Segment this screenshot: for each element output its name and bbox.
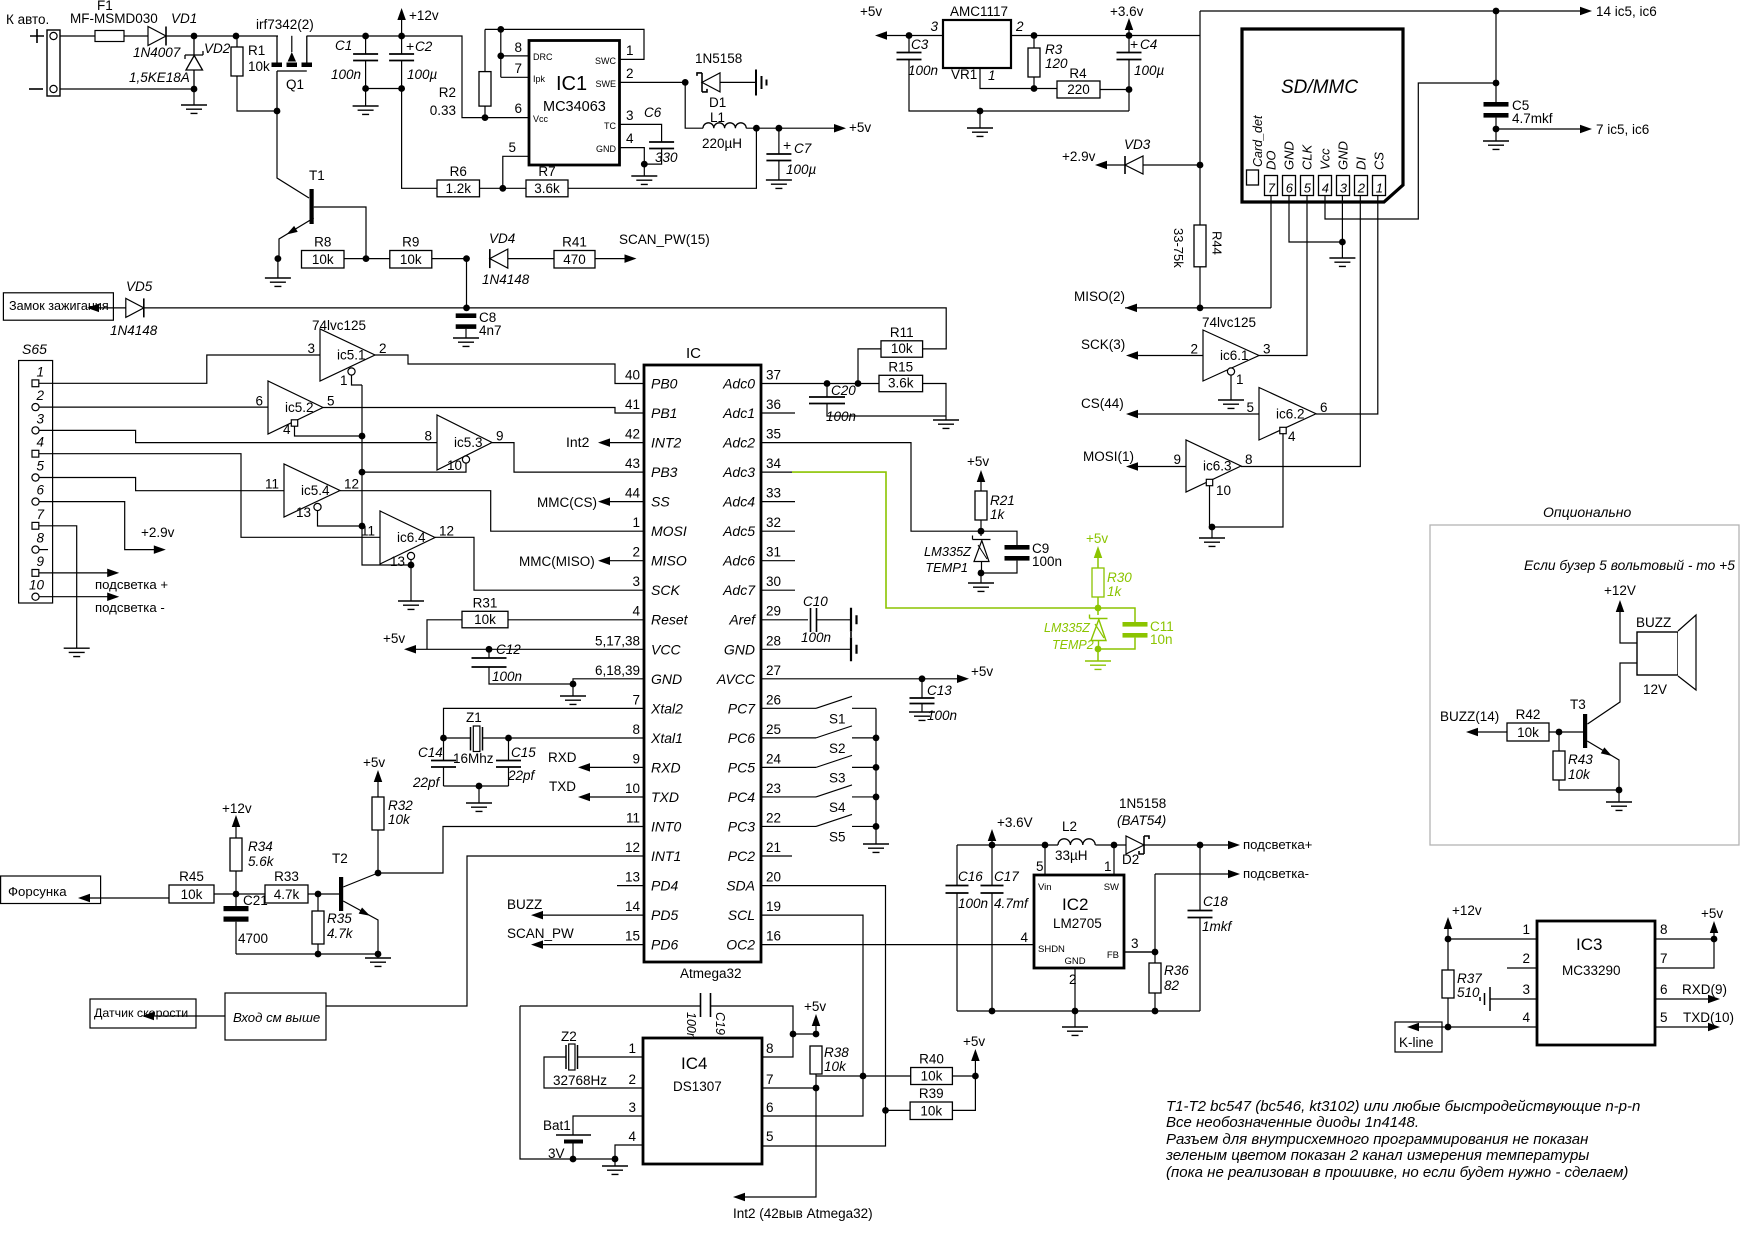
- wire R30 bottom green: [1097, 597, 1099, 608]
- svg-text:10k: 10k: [921, 1069, 943, 1084]
- svg-text:OC2: OC2: [726, 937, 755, 953]
- junction R8 R9 collector: [363, 255, 370, 262]
- wire OC2 to IC2 SHDN: [761, 944, 1034, 946]
- junction ground rail: [977, 108, 984, 115]
- inductor L2 33uH: [1058, 839, 1095, 845]
- IC U2 LM2705: [1034, 875, 1124, 968]
- svg-text:SWC: SWC: [595, 56, 616, 66]
- svg-text:37: 37: [766, 368, 781, 383]
- resistor R31 10k: [462, 595, 508, 628]
- wire R34 bottom: [235, 871, 237, 894]
- wire battery bottom: [572, 1144, 574, 1160]
- svg-text:1: 1: [1376, 181, 1383, 196]
- svg-text:Разъем для внутрисхемного прог: Разъем для внутрисхемного программирован…: [1166, 1131, 1588, 1148]
- wire Aref to C10: [761, 619, 808, 621]
- arrow +2.9v net: [154, 545, 166, 554]
- wire FB pin3: [1124, 951, 1155, 953]
- wire ignition to VD5: [99, 307, 126, 309]
- svg-text:2: 2: [1522, 951, 1530, 966]
- resistor R2 0.33: [479, 72, 491, 107]
- box vhod sm vyshe: [225, 993, 326, 1040]
- svg-text:Adc6: Adc6: [722, 553, 755, 569]
- svg-text:3.6k: 3.6k: [888, 376, 914, 391]
- junction SDA R39: [882, 1107, 889, 1114]
- svg-text:Int2 (42выв Atmega32): Int2 (42выв Atmega32): [733, 1206, 873, 1221]
- svg-text:3: 3: [36, 411, 44, 426]
- svg-text:4.7mkf: 4.7mkf: [1512, 111, 1553, 126]
- buffer ic6.2: [1259, 388, 1316, 441]
- svg-text:MMC(CS): MMC(CS): [537, 495, 597, 510]
- svg-text:S5: S5: [829, 829, 846, 844]
- wire left col to battery rail: [520, 1006, 615, 1159]
- svg-text:LM335Z: LM335Z: [1044, 621, 1090, 635]
- resistor R45 10k: [169, 869, 214, 903]
- resistor R1 10k: [231, 47, 243, 76]
- svg-text:PC5: PC5: [728, 759, 755, 775]
- svg-text:VD1: VD1: [171, 11, 197, 26]
- svg-text:MF-MSMD030: MF-MSMD030: [70, 11, 158, 26]
- ground for buffer enables: [398, 601, 424, 609]
- svg-text:10k: 10k: [920, 1104, 942, 1119]
- svg-text:SCAN_PW(15): SCAN_PW(15): [619, 232, 710, 247]
- wire ic5.1 out to PB0: [375, 355, 644, 384]
- fuse F1 MF-MSMD030: [95, 31, 124, 42]
- wire R42 left: [1478, 731, 1507, 733]
- wire Adc7 stub: [761, 589, 795, 591]
- svg-text:R31: R31: [473, 595, 498, 610]
- buffer ic6.3: [1186, 440, 1241, 492]
- wire ic5.2 enable: [295, 426, 363, 436]
- wire temp1 ground stem: [980, 573, 982, 583]
- wire IC2 bottom rail: [957, 1010, 1200, 1012]
- wire pins 7 8 column: [501, 29, 529, 77]
- wire C14 bottom: [443, 768, 445, 787]
- svg-text:R36: R36: [1164, 963, 1189, 978]
- arrow +5v AVCC: [957, 675, 969, 684]
- svg-text:Xtal2: Xtal2: [650, 700, 683, 716]
- svg-text:10k: 10k: [181, 887, 203, 902]
- svg-text:9: 9: [496, 429, 504, 444]
- svg-text:13: 13: [296, 505, 311, 520]
- arrow Int2 to pin42: [733, 1193, 745, 1202]
- svg-text:6: 6: [1320, 400, 1328, 415]
- svg-text:S2: S2: [829, 741, 846, 756]
- wire SDA to IC4 pin5: [761, 886, 886, 1146]
- wire crystal left: [444, 737, 471, 739]
- wire LM335 top stem: [980, 531, 982, 536]
- svg-text:43: 43: [625, 456, 640, 471]
- svg-text:MISO: MISO: [651, 553, 687, 569]
- svg-text:2: 2: [632, 545, 640, 560]
- svg-text:2: 2: [35, 388, 44, 403]
- wire SD pin5 CLK col: [1259, 196, 1307, 356]
- svg-text:3V: 3V: [548, 1146, 565, 1161]
- wire emitter ground stem: [277, 259, 279, 278]
- analog ground at Aref: [851, 608, 857, 632]
- svg-text:+: +: [783, 137, 791, 153]
- svg-text:C15: C15: [511, 745, 536, 760]
- wire enable common column: [362, 385, 411, 565]
- junction R36 bottom: [1152, 1008, 1159, 1015]
- svg-text:20: 20: [766, 870, 781, 885]
- arrow TXD(10): [1708, 1023, 1720, 1032]
- svg-text:7: 7: [1660, 951, 1668, 966]
- wire crystal ground stem: [478, 786, 480, 803]
- junction green node: [1095, 605, 1102, 612]
- svg-text:ic5.3: ic5.3: [454, 435, 483, 450]
- svg-text:1: 1: [988, 68, 996, 83]
- svg-text:3: 3: [1522, 982, 1530, 997]
- wire VD1 to node A: [166, 35, 278, 37]
- resistor R42 10k: [1507, 707, 1549, 741]
- svg-text:ic5.2: ic5.2: [285, 400, 314, 415]
- wire C7 to ground: [778, 161, 780, 180]
- wire Vin pin5: [1044, 845, 1046, 875]
- svg-text:Все необозначенные диоды 1n414: Все необозначенные диоды 1n4148.: [1166, 1114, 1419, 1131]
- svg-text:11: 11: [265, 477, 279, 492]
- ground rotated at D1: [756, 70, 767, 96]
- wire C5 to 7 ic5 ic6: [1496, 128, 1580, 130]
- wire S65 pin7 to ground: [39, 526, 77, 648]
- svg-text:1: 1: [628, 1041, 636, 1056]
- svg-text:10k: 10k: [388, 812, 411, 827]
- svg-text:1N4007: 1N4007: [133, 45, 181, 60]
- resistor R35 4.7k: [312, 911, 324, 944]
- svg-text:1,5KE18A: 1,5KE18A: [129, 70, 190, 85]
- capacitor C8 4n7: [456, 313, 477, 318]
- svg-text:R38: R38: [824, 1045, 849, 1060]
- svg-text:R11: R11: [890, 325, 914, 340]
- wire ic6.4 enable: [410, 560, 412, 566]
- svg-text:Q1: Q1: [286, 77, 304, 92]
- svg-text:Reset: Reset: [651, 612, 689, 628]
- wire pin3 to battery: [573, 1116, 643, 1135]
- wire IC1 pin 5 to divider: [503, 156, 529, 188]
- wire L1 out: [746, 127, 834, 129]
- svg-text:5.6k: 5.6k: [248, 854, 275, 869]
- junction IC4 ground: [612, 1156, 619, 1163]
- svg-text:IC3: IC3: [1576, 935, 1602, 954]
- svg-text:S4: S4: [829, 800, 846, 815]
- svg-text:C10: C10: [803, 594, 828, 609]
- wire podsvetka minus: [1155, 873, 1229, 875]
- svg-text:100n: 100n: [331, 67, 361, 82]
- wire C8 to ground: [465, 329, 467, 338]
- wire R21 top stem: [980, 482, 982, 491]
- arrow CS(44): [1126, 410, 1138, 419]
- wire C14 stem: [443, 738, 445, 760]
- wire Xtal1 row: [509, 737, 645, 739]
- svg-text:R2: R2: [439, 85, 456, 100]
- wire ic6.4 out to SCK: [435, 537, 644, 590]
- svg-text:10n: 10n: [1150, 632, 1173, 647]
- wire C21 bottom: [235, 922, 237, 954]
- buffer ic5.1: [320, 329, 375, 381]
- svg-text:T3: T3: [1570, 697, 1586, 712]
- svg-text:+5v: +5v: [963, 1034, 985, 1049]
- svg-text:R21: R21: [990, 493, 1015, 508]
- wire R45 to node: [214, 893, 265, 895]
- junction VD2 anode / ground: [191, 86, 198, 93]
- arrow +5v green: [1094, 546, 1103, 558]
- buffer ic5.3 enable pin: [462, 456, 469, 463]
- junction C5 wire: [1493, 80, 1500, 87]
- junction VD4 C8: [463, 255, 470, 262]
- wire R43 top stem: [1558, 732, 1560, 751]
- wire R11 left down to Adc0: [858, 349, 881, 384]
- wire SWE pin2: [620, 81, 686, 83]
- wire SWE down to L1: [685, 82, 703, 128]
- junction enable ic5.4: [359, 523, 366, 530]
- junction R1 top: [233, 33, 240, 40]
- wire C12 stem: [488, 649, 490, 658]
- arrow TXD: [578, 793, 590, 802]
- svg-text:21: 21: [766, 840, 781, 855]
- wire D1 to ground: [720, 81, 756, 83]
- wire R6 to R7: [480, 187, 527, 189]
- wire T2 collector diag: [343, 873, 378, 887]
- svg-text:4: 4: [632, 604, 640, 619]
- wire ic5.3 out to PB3: [492, 443, 644, 473]
- junction pin4 C6: [641, 161, 648, 168]
- wire pin8: [762, 1034, 793, 1057]
- wire TXD stub: [589, 796, 644, 798]
- svg-text:4.7k: 4.7k: [274, 887, 300, 902]
- wire T2 ground stem: [377, 954, 379, 958]
- svg-text:R7: R7: [538, 164, 555, 179]
- svg-text:74lvc125: 74lvc125: [1202, 315, 1256, 330]
- wire ic5.4 enable: [318, 511, 363, 527]
- wire VD4 node down to ignition net: [466, 259, 468, 308]
- junction IC2 gnd: [1072, 1008, 1079, 1015]
- ground under TEMP2 green: [1085, 661, 1111, 669]
- sensor LM335Z TEMP1: [973, 536, 991, 574]
- resistor R39 10k: [910, 1086, 952, 1120]
- svg-text:SCK: SCK: [651, 582, 680, 598]
- svg-text:10k: 10k: [248, 59, 270, 74]
- IC U IC1 MC34063: [529, 41, 620, 166]
- svg-text:Vcc: Vcc: [1318, 148, 1333, 170]
- svg-text:SW: SW: [1104, 882, 1119, 893]
- svg-text:13: 13: [390, 554, 405, 569]
- svg-text:SDA: SDA: [726, 878, 755, 894]
- junction C8 tap: [463, 305, 470, 312]
- svg-text:44: 44: [625, 486, 641, 501]
- junction T2 ground: [375, 951, 382, 958]
- box K-line: [1395, 1022, 1442, 1052]
- wire Adc3 green net: [792, 472, 1098, 608]
- wire S65 pin2 to ic5.2: [39, 406, 268, 408]
- svg-text:15: 15: [625, 929, 640, 944]
- IC U4 DS1307: [643, 1038, 762, 1164]
- svg-text:+2.9v: +2.9v: [141, 525, 175, 540]
- wire PD5 stub: [542, 914, 644, 916]
- wire SCK(3) to ic6.1: [1137, 355, 1203, 357]
- junction C15 crystal: [505, 735, 512, 742]
- svg-text:36: 36: [766, 397, 781, 412]
- svg-text:+5v: +5v: [860, 4, 882, 19]
- svg-text:3.6k: 3.6k: [534, 181, 560, 196]
- wire ic6.3 enable: [1209, 486, 1211, 527]
- svg-text:330: 330: [655, 150, 678, 165]
- resistor R40 10k: [911, 1052, 953, 1085]
- svg-text:Adc2: Adc2: [722, 435, 755, 451]
- arrow podsvetka+: [1228, 841, 1240, 850]
- buffer ic6.1: [1203, 330, 1259, 381]
- junction R2 bottom / Vcc: [482, 114, 489, 121]
- svg-text:Z1: Z1: [466, 710, 482, 725]
- junction battery rail: [570, 1156, 577, 1163]
- junction enable ic5.3: [359, 469, 366, 476]
- svg-text:R33: R33: [274, 869, 299, 884]
- svg-text:SCL: SCL: [728, 907, 755, 923]
- svg-text:+5v: +5v: [1701, 906, 1723, 921]
- analog ground at GND pin28: [851, 637, 857, 661]
- svg-text:510: 510: [1457, 985, 1480, 1000]
- svg-text:5: 5: [1660, 1010, 1668, 1025]
- svg-text:GND: GND: [1064, 956, 1085, 967]
- svg-text:ic6.2: ic6.2: [1276, 406, 1305, 421]
- svg-text:SHDN: SHDN: [1038, 944, 1065, 955]
- ground under ic6.3 enable: [1199, 538, 1225, 546]
- svg-text:Форсунка: Форсунка: [8, 884, 67, 899]
- svg-text:GND: GND: [651, 671, 682, 687]
- switch S2: [761, 737, 816, 739]
- capacitor C2 100u: [389, 54, 414, 61]
- svg-text:BUZZ(14): BUZZ(14): [1440, 709, 1499, 724]
- wire R4 to C4 col: [1100, 89, 1129, 91]
- wire top rail to ic5 ic6 vcc: [1200, 10, 1580, 12]
- svg-text:TEMP1: TEMP1: [925, 560, 968, 575]
- svg-text:(пока не реализован в прошивке: (пока не реализован в прошивке, но если …: [1166, 1164, 1628, 1181]
- wire C18 col: [1199, 845, 1201, 910]
- svg-text:PD5: PD5: [651, 907, 678, 923]
- arrow SCAN_PW: [531, 940, 543, 949]
- wire R38 down to Int2 arrow: [745, 1088, 816, 1197]
- svg-text:+5v: +5v: [849, 120, 871, 135]
- svg-text:12V: 12V: [1643, 682, 1667, 697]
- switch S4: [761, 796, 816, 798]
- svg-text:8: 8: [36, 531, 44, 546]
- svg-text:+5v: +5v: [383, 631, 405, 646]
- arrow T3 emitter: [1601, 747, 1614, 759]
- resistor R7 3.6k: [526, 164, 568, 197]
- capacitor C14 22pf: [431, 761, 456, 768]
- arrow +12v: [397, 8, 406, 20]
- arrow MISO(2): [1125, 304, 1137, 313]
- arrow RXD: [578, 763, 590, 772]
- svg-text:+5v: +5v: [1086, 531, 1108, 546]
- svg-text:DRC: DRC: [533, 52, 553, 62]
- wire SW pin1: [1113, 845, 1115, 875]
- diode D2 1N5158 BAT54: [1126, 836, 1144, 854]
- svg-text:+12v: +12v: [222, 801, 252, 816]
- wire pin1 row: [1448, 938, 1537, 940]
- wire VR1 ground stem: [979, 111, 981, 128]
- wire crystal right: [483, 737, 509, 739]
- arrow T2 emitter: [359, 907, 372, 918]
- svg-text:C21: C21: [243, 893, 268, 908]
- arrow +12V buzzer: [1616, 600, 1625, 612]
- agnd connect bar: [850, 632, 852, 637]
- arrow into forsunka: [78, 894, 90, 903]
- svg-text:+5v: +5v: [363, 755, 385, 770]
- wire R35 stem: [317, 894, 319, 911]
- junction R43 top: [1556, 729, 1563, 736]
- wire pin3 row: [1490, 998, 1537, 1000]
- T1 emitter: [279, 218, 314, 259]
- junction R21 LM335 C9: [978, 528, 985, 535]
- svg-text:BUZZ: BUZZ: [1636, 615, 1671, 630]
- inductor L1 220uH: [703, 123, 746, 128]
- wire VD2 to ground: [193, 89, 195, 105]
- capacitor C1 100n: [353, 54, 378, 61]
- wire R6 left from ground node: [402, 89, 437, 189]
- svg-text:Vcc: Vcc: [533, 114, 549, 124]
- svg-text:5,17,38: 5,17,38: [595, 633, 640, 648]
- wire Q1 drain to +12 rail: [307, 36, 529, 118]
- svg-text:R35: R35: [327, 911, 352, 926]
- wire Adc4 stub: [761, 501, 795, 503]
- svg-text:23: 23: [766, 781, 781, 796]
- wire C5 bottom: [1495, 118, 1497, 129]
- ATmega32 left pin names: [650, 376, 689, 953]
- resistor R43 10k: [1553, 751, 1565, 780]
- junction ic6 enables: [1209, 524, 1216, 531]
- svg-text:7: 7: [766, 1072, 774, 1087]
- svg-text:+5v: +5v: [804, 999, 826, 1014]
- arrow into speed sensor: [142, 1012, 154, 1021]
- wire C1 bottom stem: [365, 61, 367, 89]
- wire C1 top stem: [365, 36, 367, 54]
- svg-text:100n: 100n: [1032, 554, 1062, 569]
- junction R37 K-line: [1445, 1024, 1452, 1031]
- svg-text:PB3: PB3: [651, 464, 678, 480]
- arrow +5v IC4: [812, 1014, 821, 1026]
- wire pin5 TXD: [1655, 1026, 1709, 1028]
- wire C2 top stem: [401, 36, 403, 54]
- arrow +5v R21: [977, 470, 986, 482]
- svg-text:3: 3: [930, 19, 938, 34]
- svg-text:32: 32: [766, 515, 781, 530]
- arrow +12v IC3: [1444, 917, 1453, 929]
- wire R8 to R9: [344, 258, 390, 260]
- capacitor C12 100n: [472, 658, 507, 667]
- resistor R36 82: [1149, 963, 1161, 993]
- svg-text:RXD(9): RXD(9): [1682, 982, 1727, 997]
- svg-text:4700: 4700: [238, 931, 268, 946]
- capacitor C11 10n green: [1123, 622, 1148, 627]
- SD/MMC pin 3 GND: [1337, 176, 1350, 196]
- wire ic5.2 out to PB1: [323, 408, 644, 414]
- junction Vin L2: [1042, 842, 1049, 849]
- resistor R8 10k: [302, 235, 345, 269]
- svg-text:PD6: PD6: [651, 937, 678, 953]
- svg-text:(BAT54): (BAT54): [1117, 813, 1166, 828]
- svg-text:R37: R37: [1457, 971, 1482, 986]
- wire C9 top: [981, 531, 1017, 545]
- wire Xtal2 to crystal: [444, 708, 645, 738]
- junction R3 top: [1031, 32, 1038, 39]
- wire +12V to buzzer: [1620, 612, 1637, 643]
- svg-text:1: 1: [340, 373, 348, 388]
- junction C4 R4: [1126, 86, 1133, 93]
- svg-text:R41: R41: [562, 235, 587, 250]
- svg-text:6: 6: [766, 1100, 774, 1115]
- wire C3 stem: [908, 36, 910, 53]
- T2 emitter: [343, 901, 378, 954]
- svg-text:PC2: PC2: [728, 848, 755, 864]
